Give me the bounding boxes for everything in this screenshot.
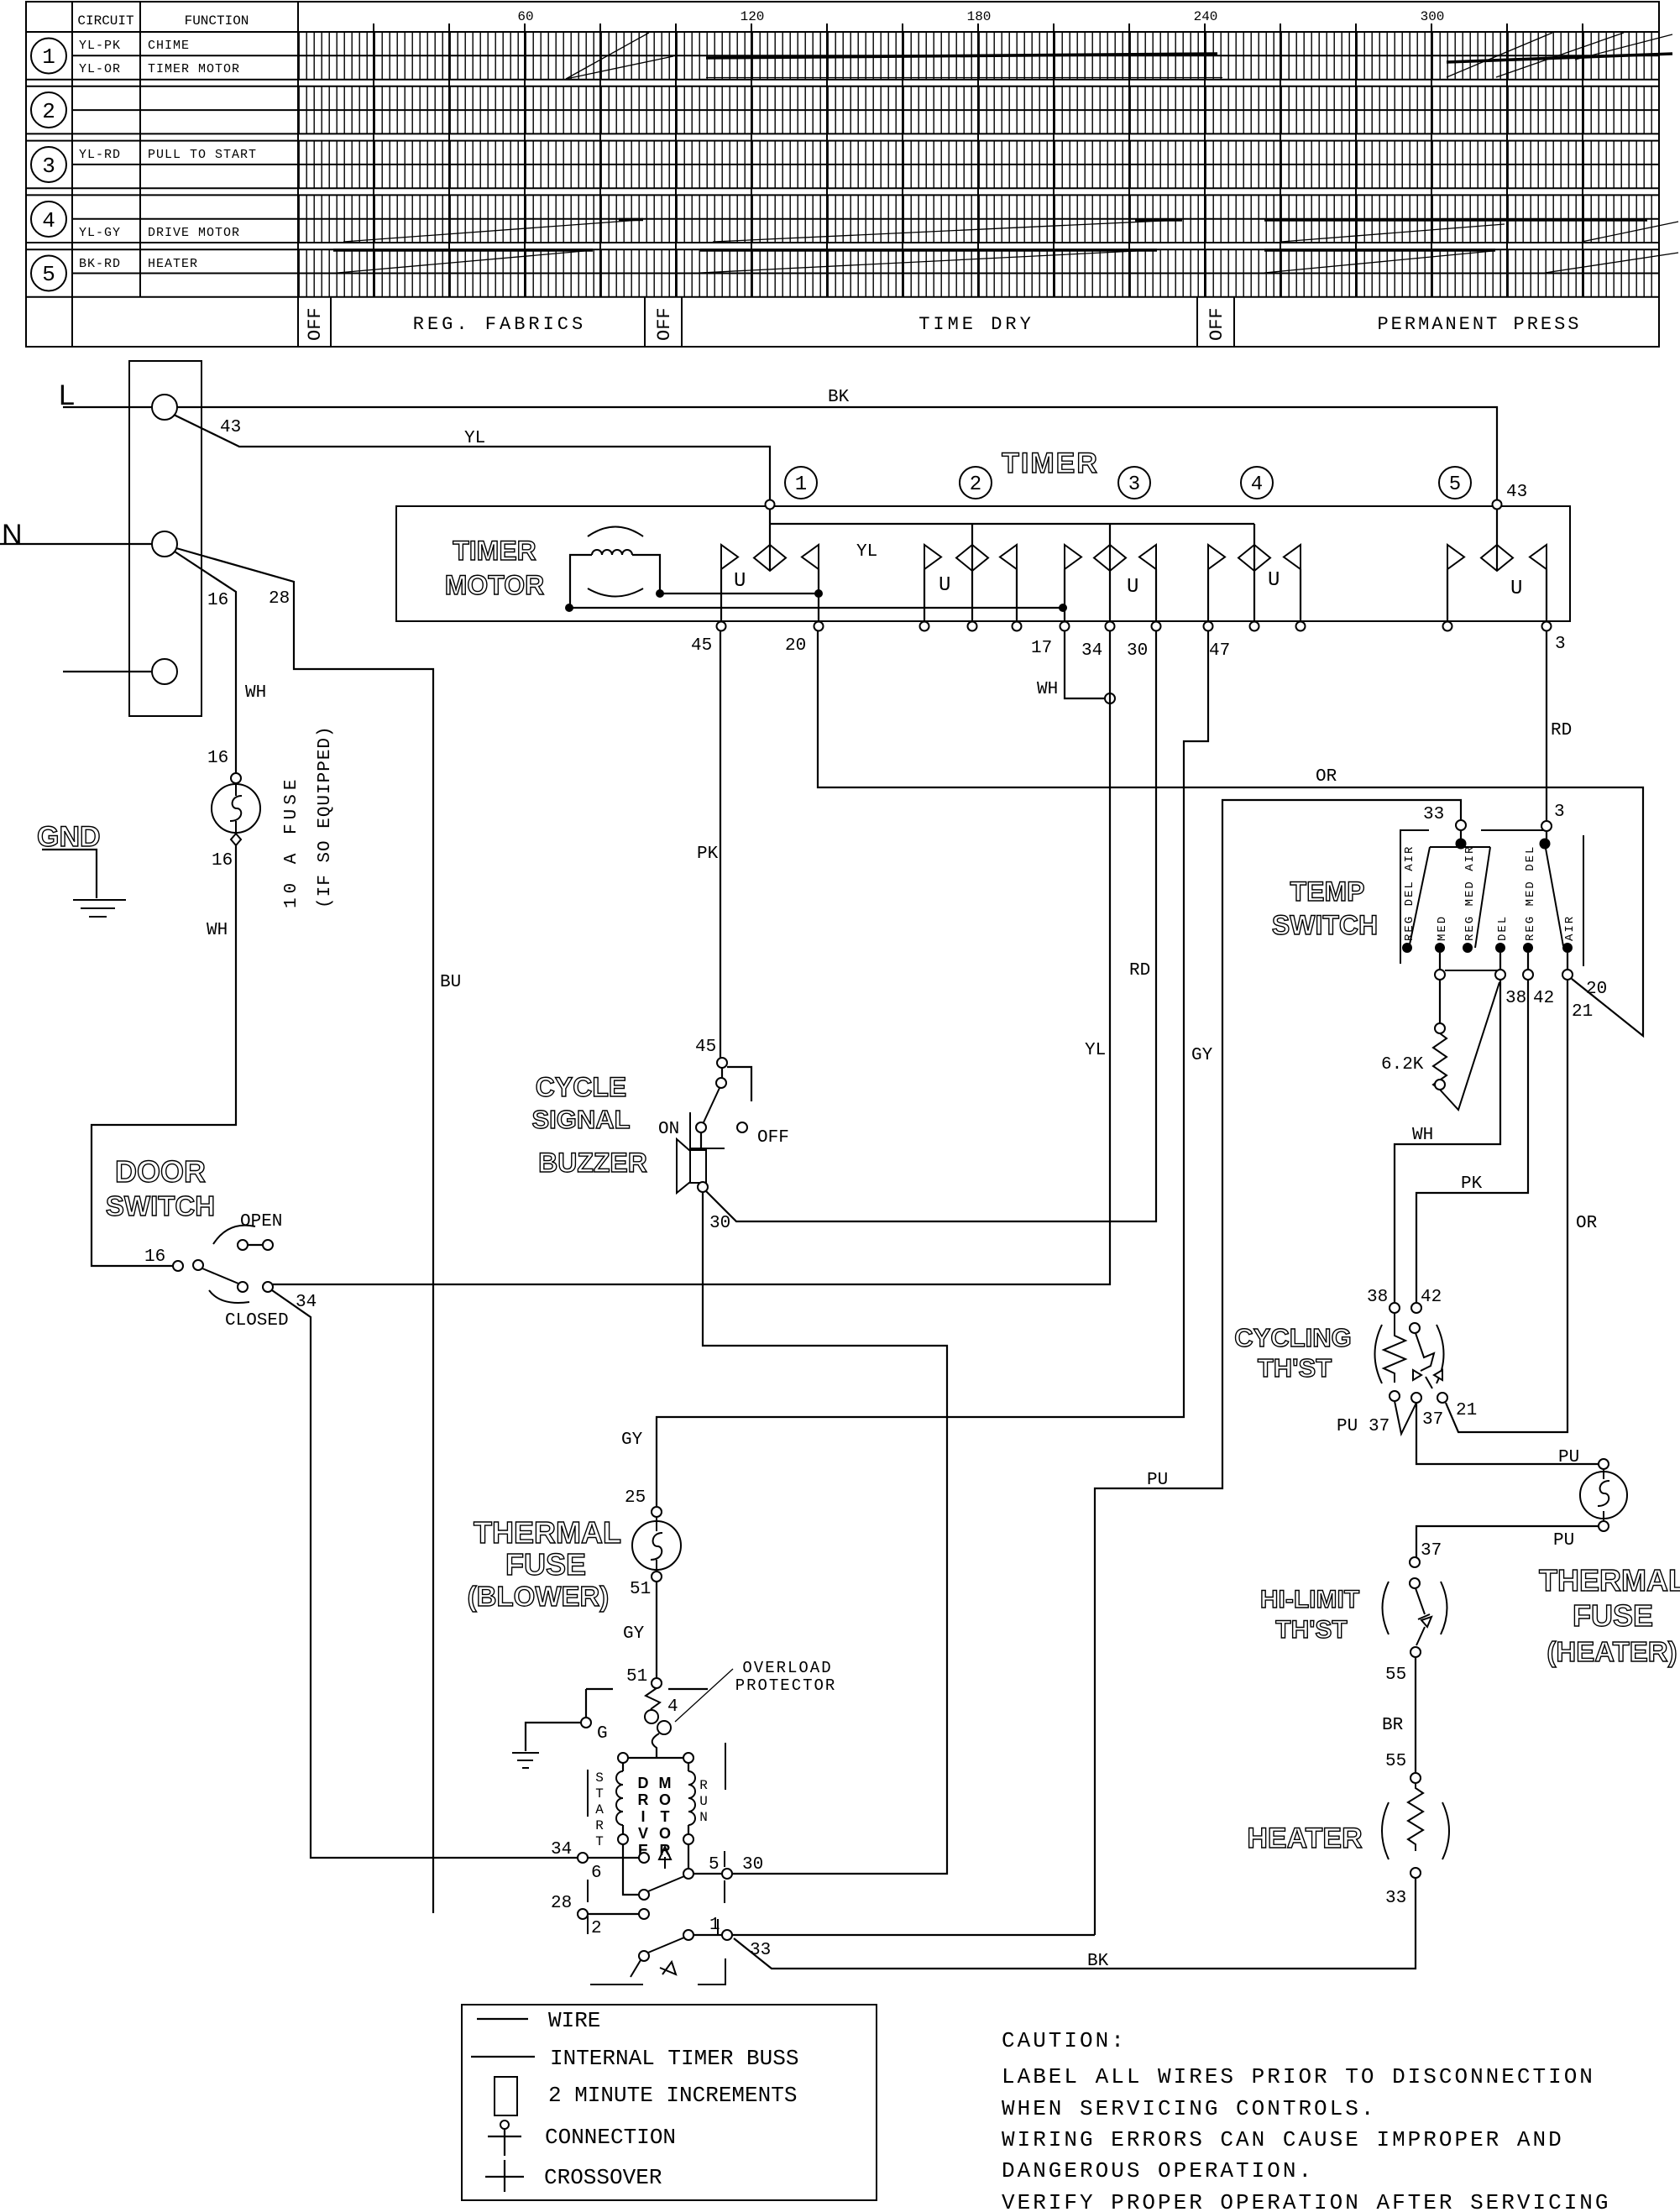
lower contact stub — [631, 1960, 641, 1977]
svg-text:WHEN SERVICING CONTROLS.: WHEN SERVICING CONTROLS. — [1002, 2096, 1376, 2121]
svg-text:21: 21 — [1572, 1002, 1593, 1022]
chart comb ticks band circuit 5 — [298, 249, 1659, 297]
timer box — [396, 506, 1570, 621]
terminal DEL — [1495, 915, 1510, 953]
label PU on 33 riser — [1147, 1471, 1168, 1490]
svg-text:PK: PK — [697, 845, 719, 864]
svg-text:43: 43 — [220, 418, 241, 437]
svg-text:2 MINUTE INCREMENTS: 2 MINUTE INCREMENTS — [548, 2083, 797, 2108]
svg-text:1: 1 — [795, 473, 807, 496]
label 1 — [709, 1916, 720, 1935]
TIME DRY section label — [919, 314, 1034, 335]
buzzer bottom pin — [698, 1182, 708, 1192]
chart comb ticks band circuit 4 — [298, 195, 1659, 243]
pin diamond below fuse — [231, 834, 241, 845]
svg-text:30: 30 — [709, 1214, 730, 1233]
label OR on 21 wire — [1576, 1214, 1598, 1233]
AIR lead pin and wire 21 — [1446, 953, 1573, 1432]
cam profile overlay circuit 1 — [566, 33, 1672, 79]
svg-text:BK: BK — [1087, 1952, 1109, 1971]
svg-text:R: R — [638, 1791, 649, 1808]
buzzer switch pins — [716, 1058, 727, 1088]
terminal REG DEL AIR — [1402, 845, 1416, 953]
cycling right pin — [1437, 1393, 1477, 1420]
label BU — [440, 973, 461, 992]
svg-text:CHIME: CHIME — [148, 39, 190, 53]
svg-text:MED: MED — [1436, 915, 1449, 941]
label YL on 34 wire — [1085, 1041, 1106, 1060]
svg-text:SIGNAL: SIGNAL — [531, 1105, 630, 1134]
wire N stub — [0, 543, 152, 545]
svg-text:G: G — [597, 1724, 608, 1744]
svg-text:(IF SO EQUIPPED): (IF SO EQUIPPED) — [316, 725, 335, 908]
REG. FABRICS section label — [413, 314, 586, 335]
wiper arm 6.2K to DEL — [1440, 982, 1499, 1110]
circled row number 4 — [31, 201, 66, 237]
pin 38 — [1367, 1288, 1400, 1313]
wire L stub — [63, 406, 152, 408]
svg-text:CONNECTION: CONNECTION — [545, 2125, 676, 2150]
terminal N — [152, 531, 177, 557]
start winding — [616, 1763, 623, 1834]
svg-text:BUZZER: BUZZER — [538, 1148, 647, 1178]
svg-text:3: 3 — [42, 154, 55, 179]
svg-text:N: N — [699, 1810, 708, 1825]
svg-text:BK-RD: BK-RD — [79, 257, 121, 271]
svg-text:PK: PK — [1461, 1174, 1483, 1194]
svg-text:YL-PK: YL-PK — [79, 39, 121, 53]
svg-text:OFF: OFF — [1206, 307, 1227, 341]
svg-text:(HEATER): (HEATER) — [1547, 1636, 1677, 1667]
svg-text:CYCLING: CYCLING — [1234, 1323, 1352, 1352]
svg-text:T: T — [661, 1808, 670, 1825]
MED lead and pin — [1435, 953, 1445, 1033]
label 25 — [625, 1488, 646, 1508]
svg-text:FUSE: FUSE — [505, 1547, 586, 1582]
internal bus motor to pin 17 leg — [569, 607, 1063, 609]
label 45 lower — [695, 1038, 716, 1057]
caution text — [1002, 2028, 1611, 2212]
timer motor coil — [570, 527, 660, 609]
pin circle 45 — [717, 622, 726, 631]
terminal block — [129, 361, 201, 716]
pin below cycling resistor — [1390, 1391, 1400, 1401]
junction circle 17-34 — [1105, 693, 1115, 703]
svg-text:55: 55 — [1385, 1752, 1406, 1771]
label 38 — [1505, 989, 1526, 1008]
OFF label column 1 — [305, 307, 326, 341]
svg-text:TH'ST: TH'ST — [1275, 1616, 1347, 1644]
svg-text:D: D — [638, 1775, 649, 1791]
label CYCLE SIGNAL BUZZER — [531, 1072, 646, 1178]
hi-limit left paren — [1383, 1582, 1390, 1634]
svg-text:HEATER: HEATER — [1247, 1822, 1362, 1854]
chart major gridlines every 20 minutes — [374, 24, 1583, 297]
start winding bottom pin — [618, 1834, 628, 1844]
overload pointer line — [675, 1669, 733, 1722]
REG MED DEL lead pin and wire 42 PK — [1416, 953, 1533, 1303]
wire 33 from temp switch common — [1095, 800, 1461, 1935]
label U contact 5 — [1510, 578, 1522, 600]
cycling th'st right paren — [1437, 1325, 1444, 1383]
svg-text:TIMER MOTOR: TIMER MOTOR — [148, 62, 240, 76]
svg-text:OFF: OFF — [757, 1128, 789, 1148]
motor pin 6 circles — [578, 1853, 649, 1863]
label 16 — [207, 591, 228, 610]
ground wire to symbol — [526, 1723, 581, 1751]
label 28 — [269, 589, 290, 609]
buzzer OFF branch — [727, 1067, 751, 1101]
pin labels under timer — [691, 635, 1566, 661]
DEL lead pin and wire 38 WH — [1395, 953, 1505, 1303]
svg-text:2: 2 — [42, 99, 55, 124]
OFF contact circle — [737, 1122, 789, 1148]
svg-text:U: U — [939, 574, 950, 597]
cycling switch arm — [1410, 1323, 1434, 1388]
svg-text:37: 37 — [1369, 1417, 1390, 1436]
svg-text:10 A FUSE: 10 A FUSE — [282, 776, 301, 908]
label 5 — [709, 1855, 720, 1875]
pin circle 3 at temp switch — [1541, 821, 1552, 831]
label WH junction — [1037, 680, 1058, 699]
header labels — [77, 13, 249, 29]
wire buzzer to motor switch 30 — [703, 1192, 947, 1874]
svg-text:GY: GY — [623, 1624, 645, 1644]
legend internal timer buss sample — [471, 2046, 798, 2071]
run winding bottom pin — [683, 1834, 693, 1844]
svg-text:CAUTION:: CAUTION: — [1002, 2028, 1127, 2053]
terminal REG MED AIR — [1463, 845, 1477, 953]
pin circle 43 top contact 5 — [1493, 500, 1502, 510]
heater right paren — [1442, 1802, 1449, 1859]
svg-text:42: 42 — [1533, 989, 1554, 1008]
svg-text:ON: ON — [658, 1120, 679, 1139]
temp switch bracket left — [1400, 830, 1429, 964]
svg-text:O: O — [659, 1825, 671, 1842]
PERMANENT PRESS section label — [1377, 314, 1581, 335]
junction dot on pin 20 leg — [814, 589, 823, 598]
label HI-LIMIT TH'ST — [1260, 1586, 1359, 1644]
motor top pins — [618, 1753, 693, 1763]
resistor 6.2K — [1381, 1033, 1447, 1090]
label WH on 38 wire — [1412, 1126, 1433, 1145]
legend connection symbol — [488, 2120, 676, 2156]
svg-text:YL: YL — [1085, 1041, 1106, 1060]
cycling contacts — [1413, 1370, 1442, 1380]
svg-text:PU: PU — [1558, 1448, 1579, 1467]
internal bus motor to pin 20 — [660, 593, 819, 594]
svg-text:30: 30 — [742, 1855, 763, 1875]
svg-text:OFF: OFF — [654, 307, 675, 341]
motor frame bar left mid — [587, 1880, 589, 1902]
junction dot timer motor left — [565, 604, 573, 612]
svg-text:2: 2 — [591, 1919, 602, 1938]
svg-text:OR: OR — [1316, 767, 1337, 787]
wire WH fuse to door switch — [92, 845, 236, 1266]
svg-text:34: 34 — [551, 1840, 572, 1859]
svg-text:INTERNAL TIMER BUSS: INTERNAL TIMER BUSS — [550, 2046, 798, 2071]
label 28 at motor — [551, 1894, 572, 1913]
label 6 — [591, 1864, 602, 1883]
circled row number 1 — [31, 39, 66, 74]
motor frame bar right — [724, 1851, 725, 1903]
label U contact 4 — [1268, 569, 1280, 592]
circuit/function cell texts — [79, 39, 257, 271]
terminal ground — [152, 659, 177, 684]
svg-text:3: 3 — [1128, 473, 1140, 496]
svg-text:PU: PU — [1147, 1471, 1168, 1490]
label BR — [1382, 1716, 1404, 1735]
label 33 at heater — [1385, 1889, 1406, 1908]
svg-text:GND: GND — [37, 821, 101, 853]
svg-text:CIRCUIT: CIRCUIT — [77, 13, 133, 29]
wire 17 to WH junction — [1065, 631, 1105, 698]
svg-text:DRIVE MOTOR: DRIVE MOTOR — [148, 226, 240, 240]
wire 37 fuse to hi-limit — [1416, 1526, 1599, 1557]
label U contact 1 — [734, 570, 746, 593]
svg-text:TH'ST: TH'ST — [1258, 1353, 1332, 1383]
motor frame bracket bottom right — [698, 1958, 725, 1985]
svg-text:5: 5 — [1449, 473, 1461, 496]
svg-text:VERIFY PROPER OPERATION AFTER: VERIFY PROPER OPERATION AFTER SERVICING — [1002, 2190, 1611, 2212]
svg-text:60: 60 — [517, 9, 533, 24]
svg-text:WIRING ERRORS CAN CAUSE IMPROP: WIRING ERRORS CAN CAUSE IMPROPER AND — [1002, 2127, 1564, 2152]
label 21 — [1572, 1002, 1593, 1022]
cam profile overlay circuit 5 heater — [333, 250, 1678, 273]
mechanical link arrow upper — [659, 1847, 671, 1869]
hi-limit bottom pin 55 — [1385, 1647, 1421, 1685]
svg-text:DEL: DEL — [1496, 915, 1510, 941]
cycling mid pin — [1411, 1393, 1443, 1430]
cycling heater resistor — [1384, 1313, 1405, 1383]
label 20 — [1586, 980, 1607, 999]
svg-text:33: 33 — [1385, 1889, 1406, 1908]
label YL — [464, 429, 485, 448]
svg-text:21: 21 — [1456, 1401, 1477, 1420]
start lead to switch contact — [623, 1844, 638, 1895]
svg-text:PU: PU — [1337, 1417, 1358, 1436]
svg-text:34: 34 — [1081, 641, 1102, 661]
svg-text:16: 16 — [207, 591, 228, 610]
svg-text:4: 4 — [667, 1697, 678, 1717]
legend box — [462, 2005, 877, 2200]
legend 2 minute increments sample — [495, 2077, 797, 2115]
svg-text:WH: WH — [245, 683, 266, 703]
timer section circle 1 — [785, 467, 817, 499]
svg-text:R: R — [699, 1778, 708, 1793]
label 51 lower — [626, 1667, 647, 1686]
OFF label column 3 — [1206, 307, 1227, 341]
svg-text:20: 20 — [1586, 980, 1607, 999]
svg-text:OR: OR — [1576, 1214, 1598, 1233]
label 43 left — [220, 418, 241, 437]
timer contact 1 — [721, 509, 819, 621]
label 34 at door switch — [296, 1293, 317, 1312]
label WH lower — [207, 921, 228, 940]
svg-text:51: 51 — [626, 1667, 647, 1686]
centrifugal switch upper contact — [639, 1890, 649, 1900]
label PU below fuse — [1553, 1531, 1574, 1550]
svg-text:33: 33 — [750, 1941, 771, 1960]
pin 1 circle — [722, 1930, 732, 1940]
pin 51 — [630, 1571, 662, 1599]
label DOOR SWITCH — [106, 1154, 215, 1221]
svg-text:PULL TO START: PULL TO START — [148, 148, 257, 162]
svg-text:TIMER: TIMER — [453, 536, 536, 566]
svg-text:4: 4 — [1251, 473, 1263, 496]
svg-text:PU: PU — [1553, 1531, 1574, 1550]
label BK — [828, 388, 850, 407]
label L — [59, 379, 75, 411]
svg-text:O: O — [659, 1791, 671, 1808]
svg-text:BU: BU — [440, 973, 461, 992]
overload protector — [645, 1688, 671, 1758]
pin 5 circle — [722, 1869, 732, 1879]
junction dot on pin 17 leg — [1059, 604, 1067, 612]
svg-text:16: 16 — [144, 1247, 165, 1267]
wire 34 YL from timer to door switch line — [273, 631, 1110, 1284]
svg-text:33: 33 — [1423, 805, 1444, 824]
svg-text:TIME DRY: TIME DRY — [919, 314, 1034, 335]
chart comb ticks band circuit 1 — [298, 32, 1659, 80]
svg-text:CLOSED: CLOSED — [225, 1311, 289, 1331]
timer contact 4 — [1208, 524, 1301, 621]
temp switch bracket top right — [1481, 829, 1543, 831]
label RUN stacked — [699, 1778, 708, 1825]
centrifugal switch lower contact — [639, 1951, 649, 1961]
svg-text:43: 43 — [1506, 483, 1527, 502]
svg-text:300: 300 — [1421, 9, 1445, 24]
timer contact 2 — [924, 524, 1017, 621]
svg-text:FUNCTION: FUNCTION — [185, 13, 249, 29]
wire 33 pivot link — [1460, 830, 1462, 841]
run winding — [688, 1763, 695, 1834]
label GY on 47 wire — [1191, 1046, 1213, 1065]
door switch travel arc lower — [209, 1290, 249, 1303]
cam profile overlay circuit 4 drive motor — [343, 220, 1678, 243]
pin circles contact 3 — [1060, 622, 1161, 631]
svg-text:WH: WH — [207, 921, 228, 940]
ON contact — [658, 1120, 706, 1139]
svg-text:38: 38 — [1505, 989, 1526, 1008]
wire PU from cycling to heater thermal fuse — [1416, 1403, 1599, 1464]
wire ground stub — [63, 671, 152, 672]
wire YL from L to timer pin 43 left — [174, 415, 770, 506]
wire BR hi-limit to heater — [1415, 1657, 1416, 1773]
run side bar — [725, 1743, 726, 1790]
svg-text:37: 37 — [1421, 1541, 1442, 1561]
label U contact 3 — [1127, 576, 1138, 599]
wire 45 PK from timer to buzzer switch — [720, 631, 721, 1058]
label MOTOR stacked bold — [659, 1775, 672, 1859]
wire 34 door switch to drive motor — [272, 1290, 578, 1858]
centrifugal switch upper arm — [648, 1876, 684, 1891]
svg-text:U: U — [1268, 569, 1280, 592]
svg-text:25: 25 — [625, 1488, 646, 1508]
svg-text:HEATER: HEATER — [148, 257, 198, 271]
door switch common pins — [173, 1260, 203, 1271]
motor frame bar left lower — [587, 1916, 589, 1934]
svg-text:V: V — [638, 1825, 648, 1842]
svg-text:WH: WH — [1412, 1126, 1433, 1145]
svg-text:120: 120 — [741, 9, 765, 24]
temp switch bracket right — [1583, 835, 1584, 966]
svg-text:45: 45 — [695, 1038, 716, 1057]
MED to DEL tie line — [1445, 970, 1497, 971]
label OPEN — [240, 1212, 282, 1232]
pin circle 20 — [814, 622, 824, 631]
label 10 A FUSE rotated — [282, 776, 301, 908]
svg-text:55: 55 — [1385, 1666, 1406, 1685]
svg-text:REG MED DEL: REG MED DEL — [1524, 845, 1537, 941]
svg-text:T: T — [595, 1786, 604, 1801]
svg-text:OFF: OFF — [305, 307, 326, 341]
svg-text:3: 3 — [1554, 803, 1565, 822]
label 16 at door switch — [144, 1247, 165, 1267]
pin circle 33 — [1456, 820, 1466, 830]
svg-text:6: 6 — [591, 1864, 602, 1883]
label 3 at temp switch — [1554, 803, 1565, 822]
svg-text:U: U — [1510, 578, 1522, 600]
cycling V link — [1395, 1401, 1416, 1434]
svg-text:T: T — [595, 1834, 604, 1849]
heater left paren — [1382, 1802, 1389, 1859]
svg-text:N: N — [2, 519, 23, 551]
ground terminal G — [581, 1689, 708, 1744]
terminal MED — [1435, 915, 1449, 953]
svg-text:SWITCH: SWITCH — [106, 1190, 215, 1221]
svg-text:THERMAL: THERMAL — [474, 1515, 621, 1550]
internal timer buss upper — [770, 523, 1254, 525]
label PU 37 — [1337, 1417, 1390, 1436]
cycling th'st left paren — [1375, 1325, 1383, 1383]
timer contact 5 — [1447, 509, 1547, 621]
svg-text:2: 2 — [970, 473, 981, 496]
label 30 at buzzer — [709, 1214, 730, 1233]
wire 28 from N to BU drop — [176, 548, 433, 1913]
label U contact 2 — [939, 574, 950, 597]
label 55 lower — [1385, 1752, 1406, 1771]
label 2 — [591, 1919, 602, 1938]
wire 47 GY from timer to blower thermal fuse — [657, 631, 1208, 1507]
temp switch right wiper pivot dot — [1540, 839, 1551, 850]
svg-text:FUSE: FUSE — [1573, 1598, 1653, 1633]
svg-text:YL-RD: YL-RD — [79, 148, 121, 162]
svg-text:(BLOWER): (BLOWER) — [468, 1581, 610, 1612]
buzzer bracket — [690, 1112, 725, 1148]
svg-text:5: 5 — [709, 1855, 720, 1875]
svg-text:U: U — [699, 1794, 708, 1809]
fuse 10A (if so equipped) — [212, 784, 260, 833]
svg-text:REG DEL AIR: REG DEL AIR — [1403, 845, 1416, 941]
svg-text:A: A — [595, 1802, 604, 1817]
svg-text:240: 240 — [1194, 9, 1218, 24]
temp switch left wiper pivot dot — [1456, 839, 1467, 850]
minute scale labels — [517, 9, 1444, 24]
svg-text:BR: BR — [1382, 1716, 1404, 1735]
heater top pin — [1410, 1773, 1421, 1783]
pin 51 lower — [652, 1678, 662, 1688]
svg-text:YL-GY: YL-GY — [79, 226, 121, 240]
label 4 — [667, 1697, 678, 1717]
label PK — [697, 845, 719, 864]
label BK bottom — [1087, 1952, 1109, 1971]
timer section circle 2 — [960, 467, 992, 499]
label 34 at motor — [551, 1840, 572, 1859]
pin circles contact 5 — [1443, 622, 1552, 631]
run lead to pivot — [688, 1844, 689, 1869]
svg-text:20: 20 — [785, 636, 806, 656]
